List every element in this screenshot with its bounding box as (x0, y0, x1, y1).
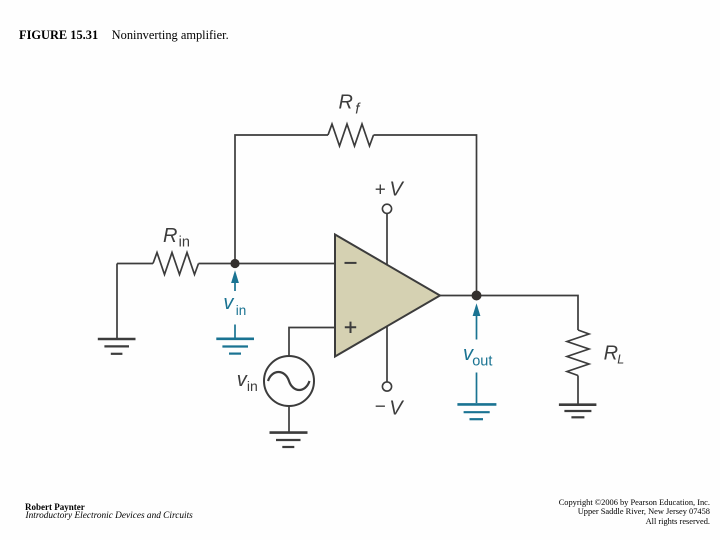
probe vout ground lead (476, 373, 478, 404)
wire left ground drop (116, 264, 118, 339)
svg-text:R: R (339, 92, 353, 114)
svg-text:−: − (375, 397, 386, 418)
probe vout arrow (473, 303, 481, 339)
op-amp noninverting pin marker (345, 322, 356, 333)
wire noninverting input (289, 328, 335, 357)
terminal -V (382, 382, 391, 391)
terminal +V (382, 204, 391, 213)
wire feedback-loop left and top (235, 135, 328, 264)
svg-text:L: L (617, 353, 624, 367)
wire source to ground (288, 406, 290, 432)
credit left (25, 502, 85, 512)
ground (probe vin, teal) (216, 339, 254, 354)
op-amp U1 (335, 235, 440, 357)
svg-text:f: f (355, 101, 361, 118)
source vin (sine generator) (264, 356, 314, 406)
svg-text:out: out (472, 353, 492, 369)
svg-text:in: in (247, 378, 258, 394)
resistor RL (567, 330, 589, 376)
figure title (19, 28, 229, 43)
node B (output junction) (472, 291, 482, 301)
node A (inverting input junction) (230, 259, 239, 268)
svg-text:R: R (163, 225, 177, 247)
svg-text:+: + (375, 180, 386, 201)
ground (left input) (98, 338, 136, 341)
svg-text:v: v (223, 292, 234, 314)
wire RL to ground (577, 376, 579, 404)
ground (probe vout, teal) (457, 404, 496, 419)
ground (source) (270, 431, 308, 434)
copyright right (559, 498, 710, 528)
ground (load) (559, 403, 597, 406)
svg-text:in: in (236, 303, 247, 318)
resistor Rin (153, 253, 199, 275)
wire from Rin to inverting input (199, 263, 336, 265)
wire +V to -V vertical (behind op-amp) (386, 214, 388, 382)
wire input left segment (117, 263, 153, 265)
probe vin arrow (231, 270, 239, 291)
probe vin ground lead (234, 325, 236, 338)
svg-text:V: V (389, 179, 404, 201)
wire output to load (440, 296, 578, 331)
wire feedback-loop top right and right drop to output node (374, 135, 477, 296)
resistor Rf (328, 124, 374, 146)
svg-text:in: in (179, 234, 190, 250)
op-amp inverting pin marker (345, 262, 357, 264)
svg-text:R: R (604, 342, 618, 364)
svg-text:V: V (389, 398, 404, 420)
